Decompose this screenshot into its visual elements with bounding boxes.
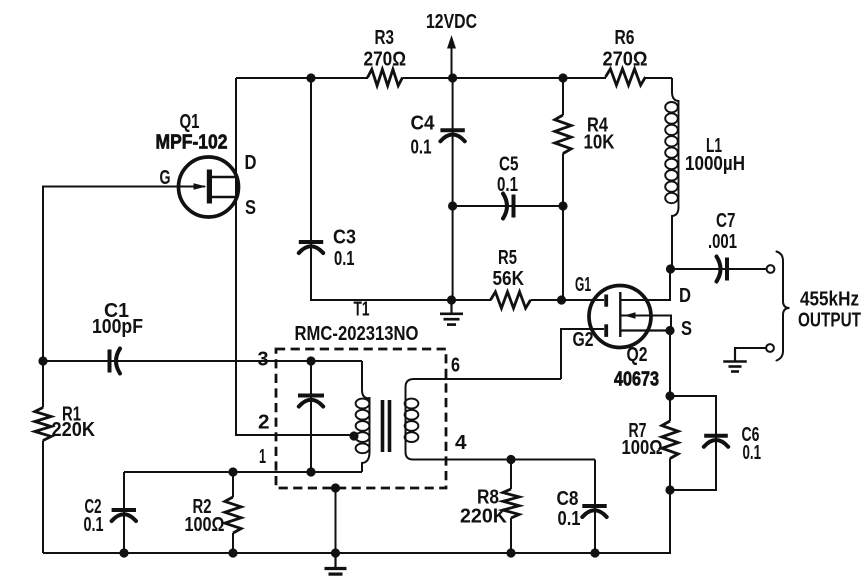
svg-text:OUTPUT: OUTPUT [798, 310, 861, 332]
svg-text:270Ω: 270Ω [364, 49, 407, 71]
svg-text:R3: R3 [375, 27, 395, 49]
svg-text:RMC-202313NO: RMC-202313NO [295, 323, 419, 345]
svg-text:0.1: 0.1 [743, 442, 762, 464]
svg-text:10K: 10K [584, 132, 615, 154]
svg-text:C7: C7 [716, 210, 736, 232]
svg-text:0.1: 0.1 [84, 514, 104, 536]
svg-text:G1: G1 [575, 274, 591, 296]
svg-text:100pF: 100pF [92, 316, 143, 338]
svg-text:D: D [245, 152, 257, 174]
svg-text:D: D [679, 285, 691, 307]
svg-text:0.1: 0.1 [558, 508, 581, 530]
svg-text:0.1: 0.1 [497, 174, 518, 196]
svg-text:2: 2 [258, 412, 270, 434]
svg-text:0.1: 0.1 [334, 248, 355, 270]
svg-text:C8: C8 [557, 488, 579, 510]
svg-text:Q1: Q1 [180, 111, 200, 133]
svg-text:0.1: 0.1 [411, 137, 432, 159]
svg-text:1: 1 [259, 446, 266, 468]
svg-text:270Ω: 270Ω [603, 49, 648, 71]
svg-text:12VDC: 12VDC [426, 11, 477, 33]
svg-text:100Ω: 100Ω [622, 437, 663, 459]
svg-text:C5: C5 [499, 154, 519, 176]
svg-text:T1: T1 [354, 299, 370, 321]
svg-text:G2: G2 [573, 329, 594, 351]
svg-text:G: G [160, 167, 171, 189]
svg-text:MPF-102: MPF-102 [156, 132, 228, 154]
svg-text:R6: R6 [615, 27, 635, 49]
svg-text:220K: 220K [460, 506, 508, 528]
svg-text:40673: 40673 [614, 369, 659, 391]
svg-text:S: S [245, 197, 256, 219]
svg-text:S: S [681, 318, 692, 340]
svg-text:Q2: Q2 [627, 344, 648, 366]
svg-text:.001: .001 [708, 231, 737, 253]
svg-text:C4: C4 [411, 113, 436, 135]
svg-text:3: 3 [258, 349, 269, 371]
svg-text:455kHz: 455kHz [800, 289, 859, 311]
svg-text:56K: 56K [493, 268, 525, 290]
svg-text:6: 6 [451, 355, 460, 377]
svg-text:R5: R5 [498, 247, 517, 269]
svg-text:1000µH: 1000µH [685, 153, 745, 175]
svg-text:220K: 220K [52, 419, 96, 441]
svg-text:100Ω: 100Ω [185, 514, 225, 536]
svg-text:4: 4 [455, 432, 467, 454]
svg-text:C3: C3 [333, 227, 356, 249]
